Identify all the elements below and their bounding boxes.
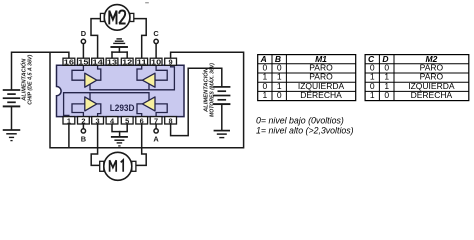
svg-text:7: 7 [154, 116, 158, 125]
svg-text:0: 0 [277, 90, 282, 100]
svg-text:15: 15 [78, 58, 88, 67]
svg-text:L293D: L293D [110, 103, 135, 113]
svg-text:10: 10 [151, 58, 161, 67]
svg-text:2: 2 [81, 116, 85, 125]
svg-text:16: 16 [64, 58, 74, 67]
svg-text:1: 1 [263, 90, 268, 100]
svg-text:14: 14 [93, 58, 104, 67]
svg-text:DERECHA: DERECHA [411, 90, 453, 100]
svg-text:9: 9 [169, 58, 173, 67]
svg-text:3: 3 [96, 116, 100, 125]
svg-text:11: 11 [137, 58, 147, 67]
svg-text:1: 1 [67, 116, 71, 125]
svg-text:1: 1 [370, 90, 375, 100]
svg-text:DERECHA: DERECHA [300, 90, 342, 100]
svg-text:A: A [153, 134, 159, 143]
svg-text:6: 6 [140, 116, 144, 125]
svg-text:CHIP (DE 4,5 A 36V): CHIP (DE 4,5 A 36V) [28, 55, 34, 105]
svg-text:0= nivel bajo (0voltios): 0= nivel bajo (0voltios) [256, 115, 344, 125]
svg-text:8: 8 [169, 116, 173, 125]
svg-text:MOTORES (MÁX. 36V): MOTORES (MÁX. 36V) [209, 63, 216, 117]
svg-text:B: B [81, 134, 86, 143]
svg-text:C: C [153, 29, 159, 38]
svg-text:13: 13 [107, 58, 117, 67]
svg-text:0: 0 [384, 90, 389, 100]
svg-text:ALIMENTACIÓN: ALIMENTACIÓN [203, 67, 210, 113]
svg-text:ALIMENTACIÓN: ALIMENTACIÓN [21, 58, 28, 102]
svg-text:D: D [81, 29, 87, 38]
svg-text:5: 5 [125, 116, 129, 125]
svg-text:12: 12 [122, 58, 132, 67]
svg-text:1= nivel alto (>2,3voltios): 1= nivel alto (>2,3voltios) [256, 126, 354, 136]
